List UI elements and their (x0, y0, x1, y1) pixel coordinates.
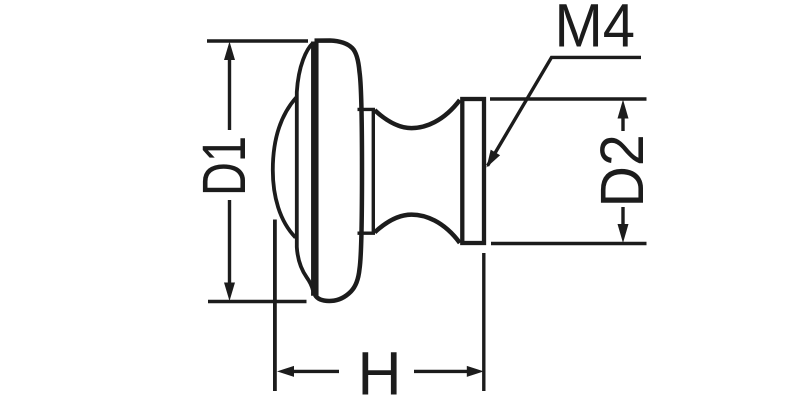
ring step top edge (358, 108, 376, 111)
H dimension line left segment (290, 370, 339, 373)
H right arrow (467, 366, 484, 377)
H dimension line right segment (414, 370, 470, 373)
neck bottom concave curve (375, 215, 460, 243)
D1 bottom arrow (224, 283, 235, 302)
D2 top arrow (618, 100, 629, 119)
D1 top extension line (207, 39, 308, 42)
D2 top extension line (490, 97, 647, 100)
svg-text:M4: M4 (555, 0, 635, 60)
ring step bottom edge (358, 231, 376, 234)
M4 leader arrow (487, 150, 501, 168)
ring right edge (372, 109, 375, 233)
D1 dimension line upper segment (228, 55, 231, 130)
neck top concave curve (375, 100, 460, 128)
dome arc (front face of knob) (273, 98, 296, 238)
D2 bottom extension line (491, 242, 647, 245)
H left arrow (277, 366, 294, 377)
knob face rim (thick edge-on line) (311, 42, 319, 296)
H left extension line (273, 220, 277, 392)
D1 top arrow (224, 42, 235, 61)
D2 dimension line upper segment (621, 113, 624, 131)
base cylinder rectangle (462, 99, 484, 243)
svg-text:D1: D1 (190, 136, 258, 196)
D1 dimension line lower segment (228, 200, 231, 288)
M4 leader line (488, 57, 642, 165)
H right extension line (482, 253, 485, 391)
svg-text:D2: D2 (587, 134, 656, 207)
D2 dimension line lower segment (621, 207, 624, 229)
knob face left profile (rim to dome) (297, 43, 313, 291)
D1 bottom extension line (208, 300, 307, 303)
knob cap silhouette (315, 41, 363, 301)
svg-text:H: H (358, 340, 402, 408)
D2 bottom arrow (618, 224, 629, 243)
